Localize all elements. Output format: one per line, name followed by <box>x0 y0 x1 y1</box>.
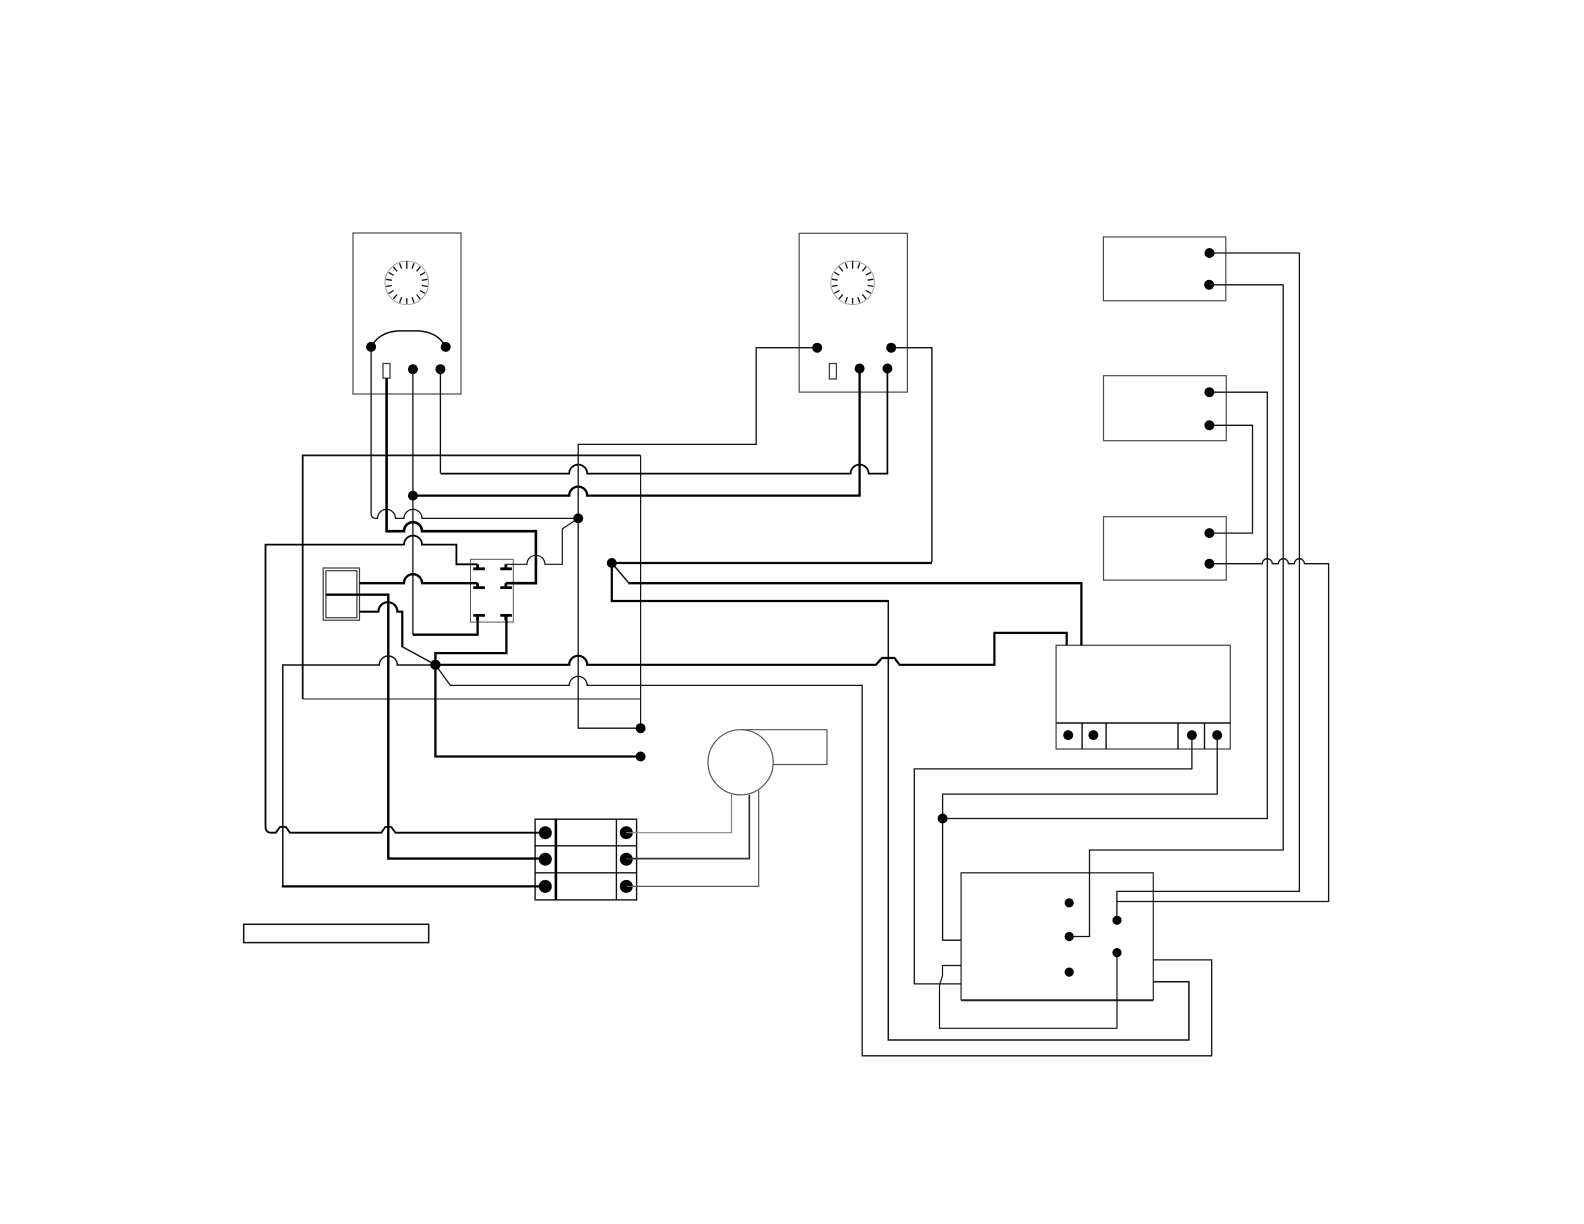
junction terminal dot upper <box>636 723 646 733</box>
thermostat T1 heat anticipator rectangle <box>383 364 390 379</box>
wire junction dot to contactor bottom-right (bold) <box>435 615 506 664</box>
thermostat T2 terminal dots <box>812 343 822 353</box>
junction terminal dot lower <box>636 752 646 762</box>
thermostat T1 dial outer circle <box>385 261 429 305</box>
contactor contact bottom-right <box>500 615 512 620</box>
fan control board box <box>1056 645 1230 749</box>
junction node W dot <box>408 491 418 501</box>
wire T1 anticipator to contactor coil circuit (bold) <box>387 378 536 583</box>
wire transformer bottom to junction dot (bold, hop) <box>360 602 403 647</box>
limit control box R2 <box>1104 376 1227 441</box>
wire junction to contactor bottom-left (bold) <box>413 615 478 634</box>
terminal block TB1 terminal dots <box>539 826 552 839</box>
limit control R3 terminal dots <box>1204 528 1214 538</box>
contactor contact middle-right <box>500 583 512 587</box>
wire fan board terminal to ignition control upper entry via node C <box>943 735 1218 940</box>
junction node C dot <box>938 814 948 824</box>
limit control R2 terminal dots <box>1204 387 1214 397</box>
junction node A dot <box>573 513 583 523</box>
wire terminal block row1 to contactor top-left (bold, hops) <box>266 536 546 833</box>
wire T1 terminal Y to T2 terminal (bold, hops) <box>439 369 441 473</box>
limit control box R3 <box>1104 517 1227 580</box>
thermostat T2 dial outer circle <box>831 261 875 305</box>
wire terminal block row2 to blower (bold) <box>626 795 749 859</box>
wire T2 left arc terminal to node A and down to junction dot <box>578 348 817 729</box>
contactor contact bottom-left <box>473 615 485 620</box>
wire T1 terminal W to junction and contactor bottom-left <box>412 369 414 635</box>
terminal block TB1 center divider bold <box>555 819 558 900</box>
thermostat T1 contact arc <box>371 331 446 347</box>
wire limit R2 bottom to limit R3 top <box>1209 425 1252 533</box>
limit control box R1 <box>1103 237 1225 301</box>
contactor contact middle-left <box>473 583 485 587</box>
wire limit R2 top to node C <box>943 392 1268 818</box>
wire contactor top-right to node A (hop) <box>506 518 578 564</box>
wire terminal block row3 up and over to junction dot (hops) <box>283 656 436 886</box>
terminal block TB1 row separators <box>535 846 637 873</box>
ignition control box <box>961 873 1153 1000</box>
terminal block TB1 outline <box>535 819 637 900</box>
thermostat T1 terminal dots <box>366 342 376 352</box>
thermostat T2 dial ticks <box>832 261 873 304</box>
contactor contact top-left <box>473 564 485 569</box>
thermostat T1 box <box>353 233 461 394</box>
blower housing <box>742 730 828 765</box>
legend label box <box>244 924 429 942</box>
wire transformer top to contactor middle-left (bold, hop) <box>360 574 478 583</box>
wire terminal block row3 to blower <box>626 791 758 887</box>
wire fan board terminal to ignition control left entry <box>914 735 1192 984</box>
wire junction dot diagonal to ignition control loop (hops) <box>435 665 1211 1056</box>
wire terminal block row1 to blower <box>626 794 731 833</box>
transformer divider bar and wire to terminal block row2 (bold) <box>326 595 545 859</box>
fan control board terminal strip <box>1056 723 1230 749</box>
wire node B to fan control board input (bold) <box>612 563 629 583</box>
junction enclosure box <box>303 455 641 699</box>
contactor contact block box <box>471 559 514 622</box>
fan control board terminal dots <box>1063 730 1073 740</box>
junction main dot <box>430 660 440 670</box>
wire limit R3 bottom to ignition control dot stub (hops) <box>1117 559 1329 902</box>
wire limit R1 top to ignition control dot <box>1117 253 1300 920</box>
limit control R1 terminal dots <box>1205 248 1215 258</box>
wire junction dot to fan control board (bold, hops) <box>435 633 1066 665</box>
transformer coil box <box>323 568 359 620</box>
thermostat T1 dial ticks <box>386 261 427 304</box>
thermostat T2 heat anticipator rectangle <box>829 364 836 380</box>
wire enclosure right edge down to junction <box>640 455 642 728</box>
wire node B to ignition control via bottom bus (bold) <box>612 563 889 601</box>
ignition control terminal dots <box>1065 898 1074 907</box>
contactor contact top-right <box>500 564 512 569</box>
wire limit R1 bottom to ignition control dot <box>1069 285 1283 937</box>
thermostat T2 box <box>799 233 907 392</box>
wire T2 right arc terminal down to node B (bold) <box>891 348 932 562</box>
wire junction W to T2 terminal (bold, hop) <box>413 369 860 496</box>
wire junction dot down to terminal dot (bold) <box>435 665 640 757</box>
wire ignition control dot to lower-left entry (jog) <box>940 953 1118 1029</box>
wire T1 left arc terminal to node A <box>371 347 578 518</box>
terminal block TB1 right divider <box>615 819 617 900</box>
junction node B dot <box>607 558 617 568</box>
